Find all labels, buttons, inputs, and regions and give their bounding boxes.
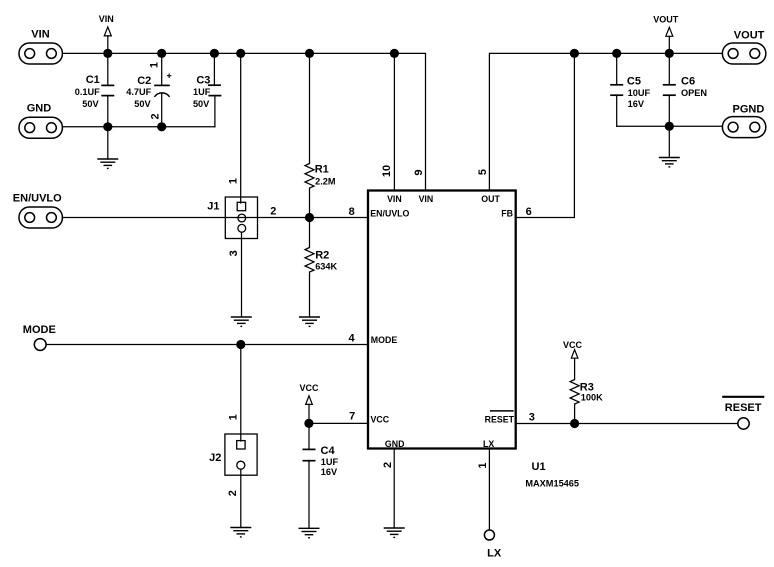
svg-text:16V: 16V (321, 467, 338, 477)
svg-text:VOUT: VOUT (734, 29, 765, 41)
wire GND rail (62, 126, 215, 128)
connector P4 VOUT (722, 43, 765, 64)
svg-text:OUT: OUT (481, 194, 500, 204)
node junction dots (103, 49, 674, 428)
wire C1 ground stem (107, 127, 109, 159)
svg-text:C5: C5 (627, 76, 641, 88)
svg-text:9: 9 (413, 169, 425, 175)
wire R1 bottom lead (309, 188, 311, 218)
wire R3 top lead (574, 358, 576, 379)
wire R2 top lead (309, 218, 311, 248)
svg-text:R1: R1 (315, 164, 329, 176)
svg-text:MODE: MODE (23, 324, 56, 336)
svg-text:J1: J1 (207, 201, 219, 213)
ground (R2) (299, 317, 320, 326)
RESET overline inside IC (490, 410, 514, 412)
svg-text:PGND: PGND (733, 103, 765, 115)
svg-text:FB: FB (501, 208, 513, 218)
svg-text:VIN: VIN (387, 194, 402, 204)
RESET overline at terminal (722, 396, 764, 398)
wire R2 bottom lead (309, 272, 311, 317)
svg-text:10: 10 (381, 165, 393, 177)
svg-text:VCC: VCC (299, 383, 319, 393)
wire J1 pin3 stem (241, 232, 243, 317)
wire C4 top lead (308, 423, 310, 449)
wire VCC net to pin7 (309, 422, 368, 424)
connector P3 EN/UVLO (19, 207, 62, 228)
jumper J2 (225, 434, 257, 475)
wire IC GND pin2 stem (393, 449, 395, 529)
wire OUT rail (489, 53, 722, 190)
svg-text:2: 2 (382, 462, 394, 468)
capacitor C1 body (101, 85, 114, 95)
svg-text:5: 5 (477, 169, 489, 175)
wire C1 top lead (107, 53, 109, 85)
capacitor C2 plus sign (167, 74, 171, 78)
connector P1 VIN (19, 43, 62, 64)
wire LX pin1 stem (488, 449, 490, 531)
svg-text:RESET: RESET (725, 402, 762, 414)
svg-text:U1: U1 (532, 461, 546, 473)
svg-text:4.7UF: 4.7UF (126, 87, 151, 97)
svg-text:MAXM15465: MAXM15465 (525, 478, 579, 488)
resistor R2 body (305, 248, 314, 273)
svg-text:1: 1 (148, 62, 160, 68)
svg-text:50V: 50V (82, 99, 99, 109)
svg-text:4: 4 (348, 333, 355, 345)
wire C6 ground stem (668, 126, 670, 157)
wire C1 bottom lead (107, 96, 109, 127)
svg-text:2: 2 (270, 206, 276, 218)
svg-text:J2: J2 (209, 452, 221, 464)
svg-text:GND: GND (385, 439, 405, 449)
power symbol VCC (C4) (306, 396, 313, 405)
svg-text:1UF: 1UF (193, 87, 211, 97)
wire VOUT symbol stem (668, 36, 670, 53)
svg-text:8: 8 (349, 206, 355, 218)
power symbol VOUT (666, 27, 673, 36)
ground (C6/PGND) (659, 158, 680, 167)
svg-text:VIN: VIN (419, 194, 434, 204)
svg-text:10UF: 10UF (628, 88, 651, 98)
wire pin10 drop (393, 53, 395, 190)
wire VIN top rail (62, 53, 425, 190)
svg-text:C2: C2 (137, 75, 151, 87)
svg-text:VCC: VCC (563, 340, 583, 350)
svg-text:C4: C4 (321, 445, 336, 457)
capacitor C2 body (polarized) (154, 85, 170, 97)
wire C2 bottom lead (161, 93, 163, 127)
svg-text:2: 2 (149, 113, 161, 119)
capacitor C5 body (610, 85, 623, 95)
svg-text:LX: LX (487, 548, 502, 560)
wire C5 top lead (616, 53, 618, 84)
wire C2 top lead (161, 53, 163, 85)
capacitor C4 body (303, 449, 316, 460)
wire C5 bottom lead (616, 95, 618, 126)
svg-text:GND: GND (27, 102, 52, 114)
wire FB net (516, 53, 575, 217)
wire VCC symbol stem left (308, 404, 310, 423)
wire EN/UVLO net (62, 217, 368, 219)
svg-text:2.2M: 2.2M (315, 177, 336, 187)
ground (C1) (97, 159, 118, 168)
wire C6 top lead (668, 53, 670, 84)
wire C3 bottom lead (214, 96, 216, 127)
svg-text:1: 1 (228, 178, 240, 184)
svg-text:1UF: 1UF (321, 457, 339, 467)
svg-text:C3: C3 (196, 74, 210, 86)
svg-text:100K: 100K (581, 392, 603, 402)
wire J2 pin1 drop (240, 345, 242, 442)
svg-text:C1: C1 (86, 74, 100, 86)
power symbol VCC (R3) (571, 350, 578, 359)
svg-text:VIN: VIN (31, 29, 49, 41)
capacitor C3 body (208, 85, 222, 95)
svg-text:OPEN: OPEN (681, 88, 707, 98)
wire C4 bottom lead (308, 461, 310, 529)
wire J1 pin1 drop (240, 53, 242, 203)
ground (J2) (230, 528, 251, 537)
connector P2 GND (19, 117, 62, 138)
svg-text:1: 1 (227, 414, 239, 420)
wire C6 bottom lead (668, 95, 670, 126)
svg-text:634K: 634K (315, 262, 337, 272)
resistor R1 body (305, 164, 314, 189)
svg-text:LX: LX (483, 439, 494, 449)
wire MODE net (46, 344, 368, 346)
svg-text:VIN: VIN (99, 14, 114, 24)
svg-text:6: 6 (526, 206, 532, 218)
wire J2 pin2 stem (240, 469, 242, 527)
wire PGND net (617, 125, 723, 127)
terminal RESET open circle (738, 418, 749, 429)
wire R1 top lead (309, 53, 311, 163)
resistor R3 body (570, 380, 579, 405)
svg-text:3: 3 (529, 412, 535, 424)
op-amp U1 IC body MAXM15465 (368, 191, 516, 449)
svg-text:1: 1 (477, 462, 489, 468)
wire RESET net (516, 423, 738, 425)
svg-text:2: 2 (227, 490, 239, 496)
svg-text:16V: 16V (628, 99, 645, 109)
capacitor C6 body (663, 85, 676, 95)
wire C3 top lead (213, 53, 215, 85)
svg-text:7: 7 (349, 411, 355, 423)
svg-text:R2: R2 (315, 249, 329, 261)
wire VIN symbol stem (107, 36, 109, 54)
svg-text:C6: C6 (681, 76, 695, 88)
svg-text:EN/UVLO: EN/UVLO (370, 208, 409, 218)
svg-text:3: 3 (228, 250, 240, 256)
ground (IC GND pin2) (384, 528, 405, 537)
svg-text:50V: 50V (193, 99, 210, 109)
svg-text:VCC: VCC (371, 414, 390, 424)
svg-text:EN/UVLO: EN/UVLO (13, 192, 62, 204)
svg-text:50V: 50V (134, 99, 151, 109)
svg-text:0.1UF: 0.1UF (75, 87, 100, 97)
connector P5 PGND (722, 117, 765, 138)
svg-text:MODE: MODE (371, 335, 398, 345)
ground (J1 pin3) (231, 317, 252, 326)
svg-text:RESET: RESET (485, 414, 515, 424)
terminal LX open circle (484, 530, 494, 540)
ground (C4) (299, 528, 320, 537)
power symbol VIN (104, 27, 111, 36)
svg-text:VOUT: VOUT (653, 14, 679, 24)
wire R3 bottom lead (574, 404, 576, 424)
jumper J1 (225, 197, 257, 239)
terminal MODE open circle (34, 339, 46, 351)
